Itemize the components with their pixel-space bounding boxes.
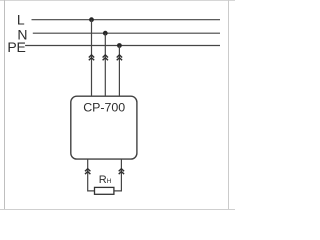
wire PE drop (118, 46, 120, 97)
arrow on output left (85, 169, 90, 174)
wire N line (33, 32, 220, 34)
junction dot on PE (117, 43, 122, 48)
arrow on PE drop (117, 55, 122, 60)
junction dot on N (103, 31, 108, 36)
svg-text:CP-700: CP-700 (83, 101, 125, 115)
junction dot on L (89, 17, 94, 22)
arrow on N drop (103, 55, 108, 60)
wire L line (32, 19, 221, 21)
wire output left (88, 159, 95, 191)
svg-text:PE: PE (7, 39, 25, 55)
svg-text:L: L (17, 11, 25, 27)
arrow on L drop (89, 55, 94, 60)
wire L drop (91, 20, 93, 96)
resistor RH (95, 187, 114, 194)
relay module U1 CP-700 box (71, 96, 137, 159)
wire N drop (104, 33, 106, 96)
arrow on output right (119, 169, 124, 174)
wire PE line (25, 45, 220, 47)
wire output right (114, 159, 122, 191)
